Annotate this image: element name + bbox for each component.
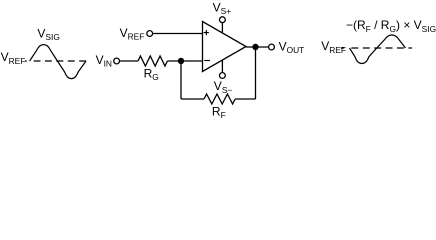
terminal VIN (open circle) <box>114 58 120 64</box>
wire dashed baseline (right waveform) <box>341 47 412 49</box>
pin - (inverting) <box>204 60 210 62</box>
terminal VS- (open circle) <box>220 73 226 79</box>
wire VS- stub <box>221 60 223 73</box>
pin + (non-inverting) <box>204 30 209 35</box>
terminal VS+ (open circle) <box>220 17 226 23</box>
output sine waveform (inverted) <box>350 35 406 64</box>
junction node (output / feedback) <box>252 44 258 50</box>
terminal VREF (open circle) <box>147 31 153 37</box>
wire dashed baseline (left waveform) <box>25 60 90 62</box>
terminal VOUT (open circle) <box>269 44 275 50</box>
wire VIN to RG <box>120 60 139 62</box>
wire rail left segment <box>181 98 204 100</box>
wire VS+ stub <box>221 23 223 34</box>
wire junction down to feedback rail <box>180 61 182 99</box>
wire VREF to non-inverting input <box>153 33 203 35</box>
wire op-amp output <box>246 46 269 48</box>
input sine waveform <box>30 45 86 79</box>
junction node (inverting input / feedback) <box>178 58 184 64</box>
wire feedback up to output <box>255 47 257 99</box>
resistor RG <box>138 56 167 66</box>
op-amp U1 triangle <box>203 22 247 72</box>
wire rail right segment <box>235 98 255 100</box>
resistor RF <box>204 94 235 104</box>
wire RG to inverting input <box>167 60 202 62</box>
